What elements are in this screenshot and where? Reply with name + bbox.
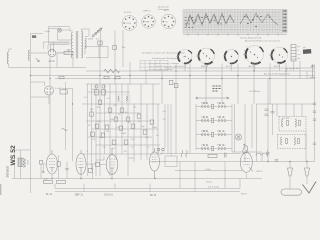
socket view circle AZ (45, 86, 54, 95)
chart curve shadow (186, 15, 234, 28)
svg-text:EBF 11: EBF 11 (75, 194, 83, 197)
svg-text:gn = grün rt = rot sw = sc: gn = grün rt = rot sw = schwarz (149, 62, 179, 65)
svg-text:Ansicht der Röhren von der Löt: Ansicht der Röhren von der Lötseite (245, 40, 281, 43)
IF row 4 (196, 145, 232, 151)
antenna coil L2 (7, 52, 9, 64)
IF row 3 (196, 131, 232, 137)
resistor block r2 (102, 90, 106, 96)
socket hatch 4 (243, 46, 257, 65)
dial lamp stadium (281, 189, 302, 195)
antenna arrow (310, 65, 316, 78)
coil cluster dark (213, 86, 221, 92)
svg-text:EF 11: EF 11 (150, 194, 157, 197)
right IF dashed box 2 (278, 135, 307, 149)
caps bottom right of EM (266, 150, 270, 157)
wire left tube (41, 162, 67, 179)
junction components between tubes (89, 168, 93, 172)
switch arrow (36, 58, 39, 61)
svg-text:2000: 2000 (26, 160, 28, 166)
bottom long bus2 (12, 178, 262, 180)
transformer T1 primary (71, 33, 73, 59)
wire tube connections (31, 42, 69, 53)
right verticals (268, 79, 306, 162)
svg-text:EBF 11: EBF 11 (144, 11, 152, 13)
chassis socket EBF11 (198, 48, 214, 64)
box left of EL tube (40, 160, 43, 164)
cap mid bottom (225, 153, 227, 158)
right IF dashed box 1 (279, 117, 306, 132)
mains terminal box (99, 46, 108, 58)
svg-text:0,1μF: 0,1μF (45, 31, 51, 33)
trimmer c2 (102, 85, 105, 88)
feeder box mid top (113, 46, 117, 50)
svg-text:EM 11: EM 11 (274, 66, 281, 68)
tube EF11 (150, 148, 160, 179)
extra dark texture IF rows (203, 103, 224, 146)
tube ECH11 (106, 148, 118, 174)
transformer T1 core (76, 31, 78, 59)
chart cell text marks (185, 16, 263, 28)
transformer T1 secondary (81, 31, 83, 58)
wire selector drop (89, 29, 101, 46)
heater bus 2 (55, 191, 240, 193)
resistor R1 (64, 51, 73, 54)
squiggle comps (181, 150, 187, 157)
tube EM11 (240, 150, 263, 173)
svg-text:2000: 2000 (152, 127, 158, 129)
bus extra (165, 67, 315, 69)
small comp boxes scatter (98, 100, 101, 105)
chart curve left (186, 14, 234, 27)
svg-text:EBF 11: EBF 11 (201, 66, 209, 68)
svg-text:1M: 1M (106, 131, 109, 133)
svg-text:AZ 11: AZ 11 (49, 60, 56, 63)
right horizontals (232, 104, 315, 162)
svg-text:220V: 220V (88, 39, 94, 41)
socket hatch 2 (197, 49, 213, 65)
pickup V (303, 182, 317, 194)
wire 170 (175, 170, 243, 172)
wire left main vertical (30, 34, 32, 194)
socket hatch 5 (270, 50, 283, 64)
svg-text:EL 11: EL 11 (226, 66, 232, 68)
cap on bus b2 (115, 76, 120, 79)
svg-text:550 Ω: 550 Ω (206, 182, 212, 184)
main bus upper (86, 70, 315, 72)
box mid bottom (165, 156, 177, 167)
svg-text:1μF: 1μF (122, 47, 126, 49)
wire hops (256, 153, 267, 156)
wire transformer to selector (70, 29, 89, 37)
wire top feed (31, 27, 73, 44)
chassis socket EL11 (225, 50, 239, 64)
bus feeders (100, 30, 315, 162)
resistor zigzag (104, 69, 120, 73)
IF row 2 (196, 117, 232, 123)
squiggle wave (62, 129, 68, 131)
svg-text:AZ 11: AZ 11 (249, 65, 255, 68)
dense left block verticals (88, 84, 159, 176)
heater bus 1 (55, 188, 240, 190)
svg-text:EL 11: EL 11 (46, 193, 53, 196)
svg-text:ECH 11: ECH 11 (105, 194, 114, 197)
bottom signal bus (150, 161, 315, 163)
chassis socket EM11 (271, 47, 287, 63)
chassis socket ECH11 (178, 50, 192, 64)
svg-text:6,3 V 0,9 A: 6,3 V 0,9 A (208, 186, 219, 189)
output tube EL11 (47, 150, 58, 174)
tiny labels scatter (90, 89, 158, 149)
bottom mid wire 153 (160, 153, 241, 155)
bottom mid small circles (157, 148, 160, 151)
IF ladder rails (196, 104, 257, 162)
socket hatch 1 (178, 53, 190, 65)
svg-text:EBF: EBF (146, 22, 151, 24)
tube socket top view 2 (142, 11, 156, 29)
legend table (140, 61, 168, 71)
tube socket top view 3 (161, 10, 175, 29)
svg-text:Drehko-Skalenantrieb: Drehko-Skalenantrieb (240, 37, 262, 40)
svg-text:1,9Ω: 1,9Ω (66, 50, 71, 52)
caps row right (265, 109, 275, 115)
socket stub wires (176, 55, 294, 72)
svg-text:Auf den Punkt abgeglichen: Auf den Punkt abgeglichen (264, 73, 291, 76)
svg-text:EM 11: EM 11 (241, 194, 248, 196)
svg-text:ZF 468: ZF 468 (282, 118, 290, 120)
svg-text:Schaltung der Wicklungen: Schaltung der Wicklungen (152, 57, 178, 60)
wire to transformer (43, 28, 70, 50)
socket hatch 3 (223, 51, 235, 64)
svg-text:WS 52: WS 52 (10, 145, 17, 166)
IF row 1 (196, 103, 232, 109)
svg-text:sw: sw (298, 54, 301, 56)
voltage selector contacts (92, 35, 94, 37)
mid verticals extra (165, 104, 171, 156)
svg-text:5000: 5000 (121, 133, 127, 135)
cap marks x67 (65, 169, 68, 170)
extra labels dense block (84, 97, 159, 153)
coil in box (118, 96, 127, 101)
svg-text:EM 11: EM 11 (257, 171, 264, 173)
left verticals mid (50, 57, 73, 162)
electrolytic cap 2 (305, 162, 310, 185)
chart scale below (183, 33, 287, 36)
rectifier tube AZ11 (48, 49, 56, 57)
dial lamp (58, 28, 62, 32)
terminal strip (291, 45, 301, 62)
edge smudge (0, 184, 1, 195)
mains choke L1 (28, 50, 29, 60)
svg-text:ECH: ECH (127, 23, 132, 25)
dashed coil box (117, 95, 130, 103)
chart dark right column (283, 10, 287, 31)
tube bottom feeders (52, 174, 247, 192)
capacitor C1 (32, 35, 36, 38)
small box between tubes left (57, 162, 60, 166)
trimmer c1 (95, 85, 98, 88)
tube socket top view 1 (122, 12, 137, 31)
small tube circle (236, 134, 242, 140)
socket labels row (179, 65, 281, 68)
speaker squiggle (243, 144, 248, 154)
bus cap left (59, 76, 64, 79)
junction dots bus (30, 70, 308, 179)
tube EBF11 (76, 150, 86, 175)
wire box links (85, 46, 99, 58)
grid subdivision lines (183, 10, 287, 34)
svg-text:1μF: 1μF (141, 126, 145, 128)
chart curve right (240, 14, 278, 26)
electrolytic cap 1 (288, 162, 293, 190)
resistor block r1 (95, 90, 99, 96)
transformer T1 filament winding (85, 38, 86, 48)
wire transformer top (15, 150, 31, 179)
resistor bottom a (44, 180, 53, 183)
wire around socket (31, 82, 73, 104)
grid label digits (191, 16, 271, 18)
heater drops (180, 162, 240, 192)
connector block (303, 49, 311, 54)
svg-text:ZF 468 kHz: ZF 468 kHz (249, 91, 260, 93)
svg-text:Fassungen: Fassungen (158, 9, 170, 11)
svg-text:0,1μF: 0,1μF (205, 169, 211, 171)
dense left block horizontals (82, 84, 162, 154)
resistor mid bottom (208, 154, 217, 157)
stub wires dense (96, 154, 141, 162)
wire antenna (9, 49, 31, 68)
svg-text:Schaub: Schaub (6, 166, 10, 178)
output transformer (18, 158, 28, 168)
svg-text:ECH 11: ECH 11 (124, 12, 132, 14)
voltage selector lever (94, 27, 103, 35)
alignment chart grid (183, 10, 287, 34)
filter boxes top mid (169, 80, 173, 84)
feeder component box a (98, 41, 102, 45)
chassis socket AZ11 (246, 46, 264, 64)
cap on bus b1 (104, 76, 109, 79)
svg-text:5000: 5000 (44, 179, 50, 181)
double arrow (196, 97, 230, 99)
electrolytic box 2x2 (60, 90, 67, 94)
cap marks right bottom (275, 160, 278, 161)
pin dot (42, 171, 44, 173)
ticks on right rail (313, 103, 316, 144)
wire lower power (31, 53, 316, 79)
resistor bottom b (57, 180, 66, 183)
svg-text:2M: 2M (90, 109, 93, 111)
svg-text:ECH 11: ECH 11 (179, 66, 187, 68)
